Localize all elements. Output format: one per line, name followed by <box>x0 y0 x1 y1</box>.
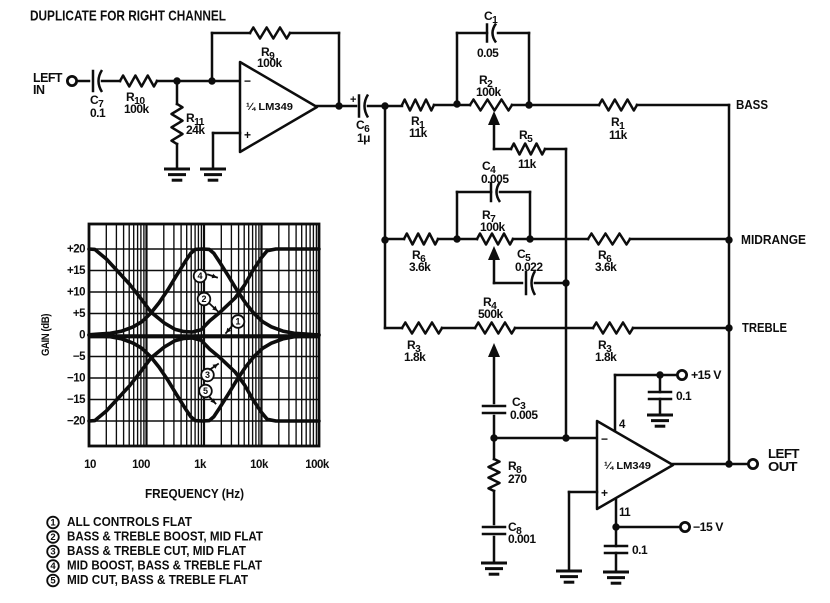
R3 right value label 1.8k <box>595 338 617 364</box>
label LEFT OUT <box>768 447 800 474</box>
wire input to C7 <box>77 80 89 83</box>
legend item 3 <box>47 544 246 558</box>
legend item 4 <box>47 559 262 573</box>
R5 value label 11k <box>518 128 537 171</box>
potentiometer R7 midrange <box>477 234 513 245</box>
+15V terminal <box>677 370 686 379</box>
wire node A to U1 inverting input <box>212 80 240 83</box>
svg-text:−5: −5 <box>73 351 86 363</box>
bypass capacitor 0.1 (+15V) <box>649 375 671 415</box>
capacitor C1 <box>486 25 489 42</box>
annotation circled 3 with arrow <box>201 364 218 381</box>
curve 5 mid cut <box>89 335 319 421</box>
resistor R10 <box>120 76 157 87</box>
svg-text:BASS & TREBLE CUT, MID FLAT: BASS & TREBLE CUT, MID FLAT <box>67 544 246 558</box>
svg-text:0.022: 0.022 <box>515 260 543 274</box>
svg-text:−10: −10 <box>67 373 85 385</box>
y-axis gain labels <box>67 244 86 428</box>
svg-text:2: 2 <box>201 294 206 304</box>
svg-text:−15: −15 <box>67 394 86 406</box>
svg-text:10k: 10k <box>250 459 269 471</box>
legend item 5 <box>47 573 248 587</box>
ground under +15V bypass <box>649 414 672 417</box>
R10 value label 100k <box>124 90 150 116</box>
resistor R6 left <box>404 234 438 245</box>
svg-text:ALL CONTROLS FLAT: ALL CONTROLS FLAT <box>67 515 192 529</box>
op-amp U1 quarter LM349 <box>240 62 317 152</box>
graph border <box>89 224 319 446</box>
svg-text:4: 4 <box>50 561 56 572</box>
legend item 1 <box>47 515 192 529</box>
svg-text:0.1: 0.1 <box>90 106 106 120</box>
svg-text:100: 100 <box>132 459 150 471</box>
wire R6 to R7 <box>438 238 477 241</box>
svg-text:100k: 100k <box>257 56 283 70</box>
node C junction <box>381 102 388 109</box>
svg-text:3.6k: 3.6k <box>409 260 431 274</box>
svg-text:5: 5 <box>50 576 56 587</box>
resistor R3 left <box>402 323 442 334</box>
svg-text:MID BOOST, BASS & TREBLE FLAT: MID BOOST, BASS & TREBLE FLAT <box>67 559 262 573</box>
svg-text:0.005: 0.005 <box>510 408 538 422</box>
wire U2 non-inverting input to ground <box>569 492 597 571</box>
svg-text:0.05: 0.05 <box>477 46 499 60</box>
svg-text:1: 1 <box>235 317 240 327</box>
node U1 output junction <box>335 102 342 109</box>
ground under U2 non-inverting input <box>558 570 581 573</box>
potentiometer R4 treble <box>475 323 515 334</box>
svg-text:500k: 500k <box>478 307 504 321</box>
bypass capacitor 0.1 (-15V) <box>605 527 627 572</box>
svg-text:¼ LM349: ¼ LM349 <box>604 460 651 472</box>
node A junction <box>173 77 180 84</box>
capacitor C8 <box>483 526 505 529</box>
svg-text:+10: +10 <box>67 287 85 299</box>
R6 left value label 3.6k <box>409 248 431 274</box>
svg-text:5: 5 <box>203 386 208 396</box>
R6 right value label 3.6k <box>595 248 617 274</box>
graph grid minor vertical lines <box>106 224 316 446</box>
node H junction <box>526 235 533 242</box>
resistor R3 right <box>593 323 633 334</box>
svg-text:0.1: 0.1 <box>676 389 692 403</box>
svg-text:2: 2 <box>50 532 55 543</box>
annotation circled 5 with arrow <box>199 385 215 404</box>
R1 left value label 11k <box>409 114 428 140</box>
curve 4 mid boost <box>89 249 319 335</box>
svg-text:10: 10 <box>84 459 96 471</box>
svg-text:+15: +15 <box>67 265 86 277</box>
wire C8 to ground <box>493 537 496 563</box>
C3 value label 0.005 <box>510 395 538 422</box>
capacitor C4 <box>490 183 493 201</box>
svg-text:IN: IN <box>33 83 45 97</box>
graph grid decade lines <box>147 224 262 446</box>
svg-text:0.005: 0.005 <box>481 172 509 186</box>
svg-text:100k: 100k <box>124 102 150 116</box>
node J junction <box>490 434 497 441</box>
legend item 2 <box>47 530 263 544</box>
svg-text:11k: 11k <box>409 126 428 140</box>
svg-text:+: + <box>244 128 251 142</box>
svg-text:−: − <box>244 74 251 88</box>
C1 value label 0.05 <box>477 9 499 60</box>
svg-text:−15 V: −15 V <box>693 520 723 534</box>
svg-text:MID CUT, BASS & TREBLE FLAT: MID CUT, BASS & TREBLE FLAT <box>67 573 248 587</box>
wire feedback loop R9 <box>212 33 339 106</box>
node L junction <box>656 371 663 378</box>
svg-text:GAIN (dB): GAIN (dB) <box>40 313 52 356</box>
svg-text:+20: +20 <box>67 244 85 256</box>
C5 value label 0.022 <box>515 247 543 274</box>
svg-text:FREQUENCY (Hz): FREQUENCY (Hz) <box>145 486 244 501</box>
svg-text:+5: +5 <box>73 308 86 320</box>
resistor R11 <box>172 81 183 169</box>
wire R1 right to bass bus <box>637 104 729 107</box>
svg-text:100k: 100k <box>480 220 506 234</box>
resistor R1 left <box>402 100 434 111</box>
C4 value label 0.005 <box>481 159 509 186</box>
capacitor C5 <box>525 272 528 294</box>
R3 left value label 1.8k <box>404 338 426 364</box>
svg-text:3: 3 <box>205 370 210 380</box>
wire C6 to node C <box>368 105 402 108</box>
svg-text:100k: 100k <box>305 459 330 471</box>
ground under -15V bypass <box>605 571 628 574</box>
capacitor C7 <box>92 71 95 91</box>
node treble on right bus <box>725 324 732 331</box>
C7 value label 0.1 <box>90 93 106 120</box>
wire U1 non-inverting input to ground <box>213 133 240 169</box>
resistor R6 right <box>588 234 630 245</box>
R2 value label 100k <box>476 73 502 99</box>
svg-text:DUPLICATE FOR RIGHT CHANNEL: DUPLICATE FOR RIGHT CHANNEL <box>30 8 226 25</box>
wire R1 to R2 <box>434 104 470 107</box>
wire C3 to summing node <box>493 416 496 438</box>
svg-text:270: 270 <box>508 472 527 486</box>
resistor R8 <box>489 438 500 524</box>
svg-text:MIDRANGE: MIDRANGE <box>741 232 806 247</box>
wire summing row to U2 <box>494 437 597 440</box>
node B junction <box>208 77 215 84</box>
curve 1 flat response <box>89 335 319 339</box>
svg-text:LEFT: LEFT <box>768 447 800 461</box>
R7 wiper arrow <box>488 246 522 283</box>
svg-text:BASS & TREBLE BOOST, MID FLAT: BASS & TREBLE BOOST, MID FLAT <box>67 530 263 544</box>
svg-text:11k: 11k <box>518 157 537 171</box>
svg-text:1.8k: 1.8k <box>404 350 426 364</box>
svg-text:1: 1 <box>50 518 56 529</box>
node midrange on right bus <box>725 236 732 243</box>
node I junction <box>562 279 569 286</box>
wire R3 right to treble bus <box>633 327 729 330</box>
label LEFT IN <box>33 71 63 97</box>
R4 value label 500k <box>478 295 504 321</box>
graph grid horizontal lines <box>89 249 319 421</box>
node K junction <box>562 434 569 441</box>
svg-text:4: 4 <box>197 271 202 281</box>
svg-text:24k: 24k <box>186 123 205 137</box>
annotation circled 2 with arrow <box>198 293 218 311</box>
svg-text:−20: −20 <box>67 416 85 428</box>
resistor R5 <box>511 144 545 155</box>
wire R4 to R3 right <box>515 327 593 330</box>
wire U2 pin 4 to +15V <box>615 375 678 431</box>
R4 wiper arrow <box>488 343 500 403</box>
C6 value label 1u <box>356 118 370 145</box>
R9 value label 100k <box>257 45 283 70</box>
wire C1 branch <box>457 33 529 104</box>
R2 wiper arrow <box>488 111 511 149</box>
ground under C8 <box>483 562 506 565</box>
wire C7 to R10 <box>102 80 120 83</box>
svg-text:11: 11 <box>619 507 631 519</box>
svg-text:100k: 100k <box>476 85 502 99</box>
wire U2 pin 11 to -15V <box>616 500 681 527</box>
node F junction <box>381 236 388 243</box>
node E junction <box>525 101 532 108</box>
svg-text:3: 3 <box>50 547 55 558</box>
annotation circled 4 with arrow <box>194 270 217 283</box>
resistor R1 right <box>599 100 637 111</box>
wire U1 output to C6 <box>317 105 356 108</box>
annotation circled 1 with arrow <box>226 315 244 333</box>
svg-text:1k: 1k <box>194 459 207 471</box>
svg-text:3.6k: 3.6k <box>595 260 617 274</box>
wire R5 to summing bus <box>545 149 566 438</box>
wire R6 right to midrange bus <box>630 238 729 241</box>
svg-text:11k: 11k <box>609 128 628 142</box>
ground under U1 <box>202 168 225 171</box>
wire C5 to summing bus <box>535 282 566 285</box>
svg-text:1μ: 1μ <box>357 131 370 145</box>
svg-text:+15 V: +15 V <box>691 368 721 382</box>
wire left bus vertical <box>384 106 387 328</box>
svg-text:0.1: 0.1 <box>632 543 648 557</box>
capacitor C3 <box>483 405 505 408</box>
node D junction <box>453 100 460 107</box>
ground under R11 <box>166 168 189 171</box>
svg-text:1.8k: 1.8k <box>595 350 617 364</box>
wire R10 to node A <box>157 80 212 83</box>
wire R3 to R4 <box>442 327 475 330</box>
potentiometer R2 bass <box>470 100 512 111</box>
wire treble row left <box>385 327 402 330</box>
wire mid row left <box>385 238 404 241</box>
svg-text:0.001: 0.001 <box>508 532 536 546</box>
svg-text:+: + <box>601 486 608 500</box>
-15V terminal <box>680 522 689 531</box>
svg-text:OUT: OUT <box>768 460 798 474</box>
wire C4 branch <box>457 192 530 239</box>
wire right bus vertical <box>728 105 731 464</box>
C8 value label 0.001 <box>508 520 536 546</box>
curve 2 bass and treble boost <box>89 249 319 332</box>
svg-text:+: + <box>350 94 356 106</box>
node M junction <box>612 523 619 530</box>
svg-text:TREBLE: TREBLE <box>742 320 787 335</box>
resistor R9 <box>250 28 290 39</box>
wire U2 output to LEFT OUT <box>673 463 749 466</box>
node output junction <box>725 460 732 467</box>
R8 value label 270 <box>508 459 527 486</box>
wire R7 to R6 right <box>513 238 588 241</box>
R7 value label 100k <box>480 208 506 234</box>
output terminal LEFT OUT <box>748 459 757 468</box>
svg-text:0: 0 <box>79 330 85 342</box>
op-amp U2 quarter LM349 <box>597 421 673 509</box>
curve 3 bass and treble cut <box>89 338 319 421</box>
node G junction <box>453 235 460 242</box>
capacitor C6 <box>350 94 368 118</box>
svg-text:−: − <box>601 432 608 446</box>
wire R2 to R1 right <box>512 104 599 107</box>
R1 right value label 11k <box>609 115 628 142</box>
R11 value label 24k <box>186 111 205 137</box>
input terminal <box>67 76 76 85</box>
svg-text:¼ LM349: ¼ LM349 <box>246 101 293 113</box>
svg-text:BASS: BASS <box>736 97 768 112</box>
x-axis frequency labels <box>84 459 330 471</box>
